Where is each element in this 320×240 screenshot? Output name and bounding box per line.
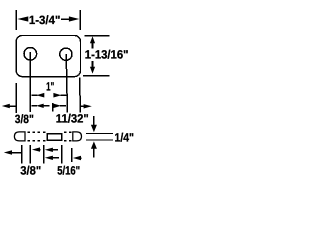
bottom extension lines	[21, 145, 23, 164]
svg-text:1/4": 1/4"	[115, 131, 135, 145]
svg-text:1": 1"	[46, 80, 54, 94]
plate outline (top view)	[16, 36, 80, 77]
dim 1-13/16 down arrow	[90, 61, 95, 74]
solid middle box (closed rect)	[47, 134, 62, 141]
center line left hole	[29, 52, 31, 112]
bottom 3/8 left arrow	[4, 150, 21, 154]
svg-text:3/8": 3/8"	[15, 112, 34, 126]
short middle extension line	[52, 103, 54, 112]
left rail extension below plate (3/8 dim)	[15, 83, 17, 113]
bottom arrow right of line3 upper	[45, 148, 58, 152]
dim 1-3/4 extension line left	[15, 10, 17, 30]
dim 1-3/4 extension line right	[79, 10, 81, 30]
1/4 up arrow below	[91, 141, 97, 157]
left rolled end cap (closed)	[14, 132, 25, 141]
right rail extension below plate (11/32 dim)	[79, 78, 81, 113]
3/8 left outside arrow	[2, 104, 16, 109]
bottom arrow right of line5	[73, 156, 82, 160]
dim 1" arrow left	[31, 93, 44, 98]
center line right hole	[66, 54, 67, 112]
1/4 dim top extension	[86, 132, 113, 134]
1/4 down arrow above	[91, 116, 97, 132]
svg-text:5/16": 5/16"	[57, 164, 80, 178]
dim 1" arrow right	[53, 93, 66, 98]
dashed edges right cluster	[64, 132, 71, 141]
dim 1-13/16 top extension line	[85, 35, 110, 37]
1/4 dim bottom extension	[86, 139, 113, 141]
dim 1-13/16 bottom extension line	[83, 75, 110, 77]
11/32 right outside arrow	[81, 104, 92, 108]
hole right	[60, 48, 72, 60]
svg-text:1-3/4": 1-3/4"	[29, 13, 61, 27]
3/8 right arrow	[31, 104, 49, 108]
bottom arrow right of line2	[32, 147, 41, 151]
dim 1-3/4 arrow right	[61, 16, 79, 21]
svg-text:11/32": 11/32"	[56, 112, 89, 126]
dim 1-3/4 arrow left	[17, 16, 28, 21]
svg-text:1-13/16": 1-13/16"	[85, 47, 129, 61]
svg-text:3/8": 3/8"	[20, 164, 41, 178]
11/32 left arrow	[54, 104, 67, 108]
bottom arrow right of line3 lower	[45, 156, 59, 160]
hole left	[24, 48, 37, 61]
dashed top/bottom edges left cluster	[28, 132, 46, 141]
dim 1-13/16 up arrow	[90, 36, 95, 48]
right rolled end cap (closed)	[73, 132, 82, 141]
